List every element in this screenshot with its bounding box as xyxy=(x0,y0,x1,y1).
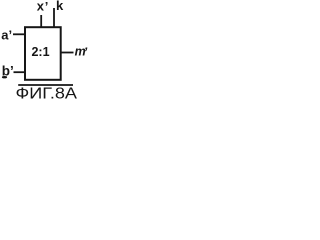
ink smudge below b' xyxy=(2,76,7,78)
svg-text:’: ’ xyxy=(84,46,88,60)
wire x' input (top-left vertical) xyxy=(40,15,42,27)
wire k input (top-right vertical) xyxy=(53,8,55,27)
svg-text:ФИГ.8А: ФИГ.8А xyxy=(16,86,78,101)
wire a' input (left horizontal) xyxy=(13,33,25,35)
wire m' output (right horizontal) xyxy=(60,52,74,54)
svg-text:x: x xyxy=(37,0,45,14)
svg-text:’: ’ xyxy=(45,0,49,14)
svg-text:k: k xyxy=(56,0,64,13)
caption overbar xyxy=(18,84,73,86)
svg-text:2:1: 2:1 xyxy=(31,45,49,59)
svg-text:a’: a’ xyxy=(1,28,12,43)
mux box U1 (2:1 multiplexer) xyxy=(25,27,61,80)
wire b' input (left horizontal) xyxy=(14,71,26,73)
